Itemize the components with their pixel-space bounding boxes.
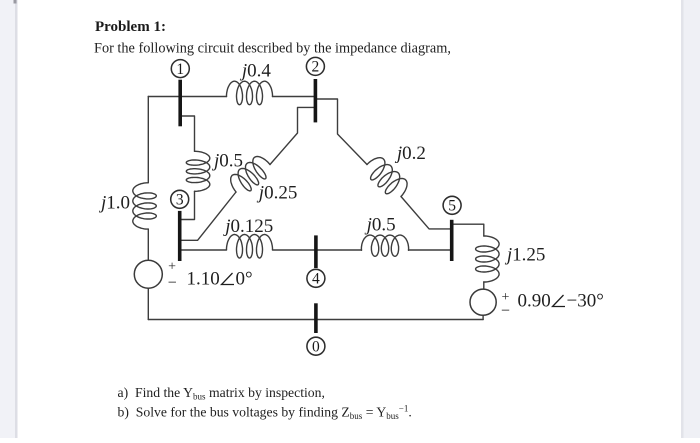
svg-text:−: − — [501, 303, 510, 320]
inductor j0.25 (bus2-bus3) — [231, 157, 270, 193]
svg-text:Problem 1:: Problem 1: — [95, 19, 166, 35]
source V2 (0.90 angle -30) — [470, 289, 496, 315]
wire: bus 3 to inductor j0.125 — [180, 249, 227, 251]
left page margin band — [0, 0, 15, 438]
inductor j1.25 (bus5 source branch) — [476, 236, 500, 282]
svg-text:b) Solve for the bus voltages: b) Solve for the bus voltages by finding… — [118, 404, 412, 422]
svg-text:−30°: −30° — [567, 291, 604, 312]
svg-text:For the following circuit desc: For the following circuit described by t… — [94, 41, 451, 57]
svg-text:+: + — [168, 259, 176, 274]
wire: bus 1 stub down to j0.5 — [180, 116, 194, 151]
wire: top-left corner to bus 1 — [148, 96, 180, 98]
inductor j0.2 (bus2-bus5) — [367, 158, 407, 197]
svg-text:1.10: 1.10 — [187, 269, 220, 290]
wire: j0.2 diagonal to bus 5 — [401, 197, 452, 229]
wire: left branch down from corner to j1.0 — [147, 97, 149, 183]
svg-text:3: 3 — [176, 192, 184, 209]
svg-text:0.90: 0.90 — [518, 291, 551, 312]
svg-text:5: 5 — [448, 198, 456, 215]
svg-text:j0.125: j0.125 — [222, 216, 273, 237]
svg-text:4: 4 — [312, 271, 320, 288]
svg-text:j0.5: j0.5 — [364, 215, 396, 236]
bus bar 1 — [178, 80, 182, 127]
bus bar 4 — [314, 235, 318, 268]
svg-text:j1.0: j1.0 — [98, 192, 130, 213]
svg-text:j0.25: j0.25 — [256, 182, 298, 203]
node 5 — [443, 196, 461, 214]
wire: source V2 to bottom rail — [482, 315, 484, 319]
node 4 — [307, 269, 325, 287]
wire: bus 1 to inductor j0.4 — [180, 96, 226, 98]
node 3 — [171, 190, 189, 208]
wire: j0.5 down to bus 3 — [180, 191, 195, 219]
reference bar node 0 — [314, 303, 318, 333]
label 0.90 angle -30 — [518, 291, 604, 312]
right page margin band — [683, 0, 700, 438]
wire: j0.125 to j0.5 across bus 4 — [273, 249, 362, 251]
bus bar 2 — [314, 79, 318, 122]
inductor j0.5 (bus1-bus3) — [186, 151, 210, 191]
wire: bus 5 stub to j1.25 — [452, 224, 484, 236]
source V1 (1.10 angle 0) — [134, 260, 162, 288]
bus bar 3 — [178, 211, 182, 261]
svg-text:j1.25: j1.25 — [504, 244, 546, 265]
svg-text:j0.5: j0.5 — [211, 150, 243, 171]
top-left dark notch — [14, 0, 17, 4]
wire: j1.25 to source V2 — [483, 282, 485, 289]
inductor j0.125 (bus3-bus4) — [227, 235, 273, 259]
label 1.10 angle 0 — [187, 269, 253, 290]
wire: j0.25 lower diagonal to bus 3 — [180, 192, 236, 240]
inductor j1.0 (source branch to bus1) — [133, 183, 157, 229]
svg-text:j0.4: j0.4 — [239, 61, 272, 82]
bus bar 5 — [450, 220, 454, 261]
wire: bus 2 right stub diagonal to j0.2 — [315, 99, 367, 165]
node 2 — [306, 57, 324, 75]
wire: j1.0 to source V1 — [147, 229, 149, 260]
inductor j0.5 (bus4-bus5) — [361, 235, 408, 256]
svg-text:j0.2: j0.2 — [394, 143, 426, 164]
svg-text:0°: 0° — [236, 269, 253, 290]
svg-text:0: 0 — [312, 339, 320, 356]
wire: source V1 to bottom rail — [147, 288, 149, 319]
inductor j0.4 (bus1-bus2) — [227, 81, 273, 105]
node 1 — [171, 60, 189, 78]
svg-text:−: − — [168, 275, 177, 292]
svg-text:2: 2 — [312, 59, 320, 76]
svg-text:1: 1 — [176, 61, 184, 78]
wire: bottom reference rail (node 0) — [148, 319, 483, 321]
wire: j0.5 to bus 5 — [409, 249, 452, 251]
wire: inductor j0.4 to bus 2 — [273, 96, 316, 98]
node 0 — [307, 337, 325, 355]
svg-text:a) Find the Ybus matrix by in: a) Find the Ybus matrix by inspection, — [118, 385, 325, 402]
wire: bus 2 left stub diagonal to j0.25 — [270, 107, 315, 164]
